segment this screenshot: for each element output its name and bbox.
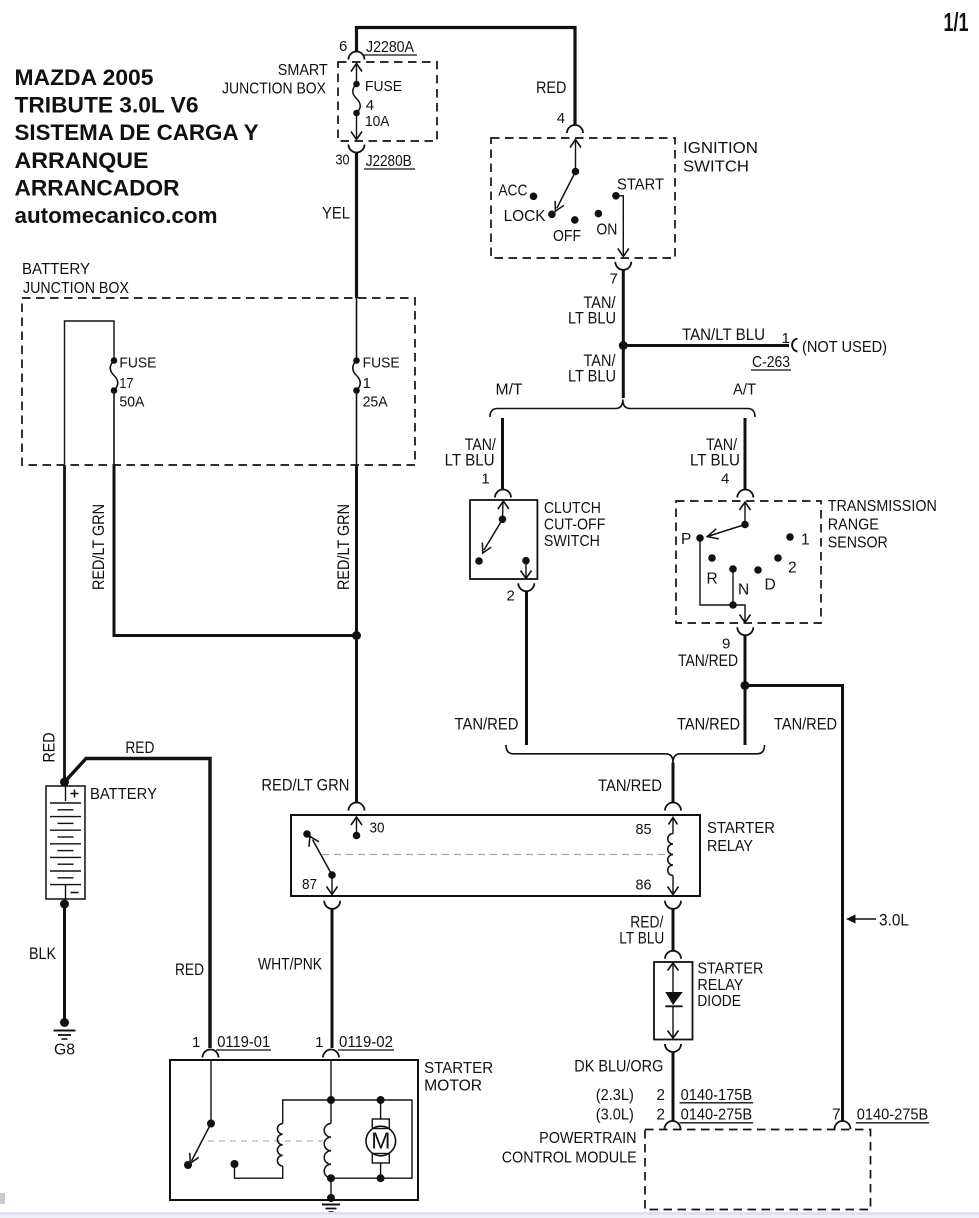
wire top horizontal RED feed [357, 28, 576, 126]
connector pin 4 ignition switch [557, 110, 583, 133]
merge brace [506, 745, 765, 763]
svg-text:BATTERY: BATTERY [90, 786, 157, 803]
label SMART JUNCTION BOX [222, 62, 328, 98]
svg-text:DK BLU/ORG: DK BLU/ORG [574, 1057, 663, 1076]
svg-text:J2280A: J2280A [366, 39, 415, 56]
connector PCM pin 7 [835, 1121, 851, 1129]
wire pin 87 exit arrow [331, 875, 333, 895]
connector pin 1 clutch switch [481, 471, 511, 498]
svg-text:SWITCH: SWITCH [683, 159, 749, 176]
svg-text:CUT-OFF: CUT-OFF [544, 517, 606, 534]
svg-text:ARRANQUE: ARRANQUE [15, 148, 149, 173]
svg-text:7: 7 [610, 271, 618, 288]
contact R [708, 554, 716, 562]
battery junction box (dashed) [22, 298, 415, 465]
svg-text:30: 30 [336, 151, 350, 168]
svg-text:LT BLU: LT BLU [445, 451, 495, 470]
svg-text:RED: RED [40, 733, 59, 763]
svg-text:0119-01: 0119-01 [217, 1034, 270, 1051]
split brace M/T A/T [490, 400, 755, 418]
connector pin 30 J2280B [336, 145, 416, 171]
svg-text:DIODE: DIODE [697, 993, 741, 1010]
connector pin 87 exit [324, 901, 340, 909]
svg-text:YEL: YEL [322, 204, 350, 223]
bottom page strip [0, 1212, 979, 1215]
svg-text:RED: RED [175, 960, 204, 979]
svg-text:LT BLU: LT BLU [568, 309, 616, 328]
starter hold-in winding [324, 1060, 335, 1182]
label TRANSMISSION RANGE SENSOR [828, 498, 937, 551]
svg-text:17: 17 [119, 375, 133, 392]
svg-text:TAN/RED: TAN/RED [774, 714, 837, 733]
label IGNITION SWITCH [683, 140, 758, 176]
starter relay box [291, 815, 700, 896]
wire BLK battery to ground [63, 904, 66, 1020]
svg-text:TRIBUTE 3.0L V6: TRIBUTE 3.0L V6 [15, 93, 199, 118]
contact pin2 [522, 557, 530, 565]
svg-text:RED: RED [125, 738, 154, 757]
wire pin4 entry arrow [740, 502, 751, 510]
svg-text:1/1: 1/1 [944, 7, 969, 37]
svg-text:M/T: M/T [496, 382, 524, 399]
svg-text:JUNCTION BOX: JUNCTION BOX [222, 81, 327, 98]
svg-text:SENSOR: SENSOR [828, 534, 888, 551]
svg-text:FUSE: FUSE [119, 355, 156, 372]
wire TAN/RED brace to relay [672, 763, 675, 803]
label BATTERY JUNCTION BOX [22, 261, 130, 297]
wire A/T branch down [744, 418, 747, 490]
svg-text:TRANSMISSION: TRANSMISSION [828, 498, 937, 515]
svg-text:TAN/RED: TAN/RED [455, 714, 519, 733]
svg-text:50A: 50A [119, 394, 144, 411]
wire TAN/LT BLU ignition to junction [622, 269, 625, 345]
svg-text:0140-175B: 0140-175B [681, 1087, 753, 1104]
sensor wiper arrow to P [709, 525, 745, 537]
connector PCM pin 2 [665, 1121, 681, 1129]
node clutch pivot [499, 516, 507, 524]
ground G8 [54, 1018, 76, 1059]
starter motor ground [322, 1178, 340, 1212]
svg-text:0140-275B: 0140-275B [681, 1107, 753, 1124]
svg-text:ACC: ACC [498, 182, 527, 199]
svg-text:TAN/RED: TAN/RED [677, 714, 740, 733]
clutch wiper arrow [484, 519, 503, 550]
svg-text:86: 86 [636, 877, 652, 894]
contact 2 [774, 554, 782, 562]
svg-text:25A: 25A [363, 394, 388, 411]
svg-text:BLK: BLK [29, 944, 57, 963]
wire pin2 exit arrow [525, 561, 527, 579]
svg-text:STARTER: STARTER [707, 820, 775, 837]
wire branch to C-263 [623, 344, 789, 347]
svg-text:MAZDA 2005: MAZDA 2005 [15, 65, 154, 90]
svg-text:G8: G8 [54, 1042, 75, 1059]
wire below fuse 1 [356, 391, 358, 466]
wire branch right to PCM pin 7 [745, 686, 843, 1122]
svg-text:STARTER: STARTER [424, 1060, 493, 1077]
node wiper pivot [572, 168, 580, 176]
arrow down out of SJB [351, 113, 362, 140]
svg-text:RED/LT GRN: RED/LT GRN [334, 504, 353, 590]
svg-text:4: 4 [557, 110, 565, 127]
connector pin 1 0119-02 [315, 1034, 394, 1057]
svg-text:SWITCH: SWITCH [544, 533, 600, 550]
label STARTER RELAY DIODE [697, 961, 763, 1010]
svg-text:2: 2 [788, 560, 797, 577]
wire below fuse 17 [113, 391, 115, 466]
svg-text:2: 2 [656, 1107, 665, 1124]
svg-text:P: P [681, 531, 691, 548]
connector pin 9 range sensor [722, 627, 753, 652]
svg-text:85: 85 [636, 821, 652, 838]
wire RED battery to starter motor [65, 759, 211, 1049]
connector pin 86 exit [665, 901, 681, 909]
clutch cut-off switch box [470, 500, 537, 579]
svg-text:RELAY: RELAY [707, 838, 753, 855]
fuse F4 10A [353, 78, 402, 130]
svg-text:SISTEMA DE CARGA Y: SISTEMA DE CARGA Y [15, 120, 259, 145]
svg-text:RELAY: RELAY [697, 977, 743, 994]
svg-text:1: 1 [481, 471, 489, 488]
labels TAN/RED row [677, 714, 837, 733]
contact P [696, 534, 704, 542]
svg-text:2: 2 [507, 587, 515, 604]
relay internal dashed line [322, 854, 666, 856]
wire battery positive feed [63, 465, 66, 782]
node TAN/RED junction [741, 681, 750, 690]
wire DK BLU/ORG diode to PCM [672, 1052, 675, 1122]
smart junction box (dashed) [338, 62, 437, 141]
wire RED/LT GRN from fuse 17 joining fuse 1 output [114, 465, 357, 636]
svg-text:3.0L: 3.0L [879, 911, 909, 930]
connector pin 2 clutch switch [507, 583, 535, 604]
wire WHT/PNK relay to starter motor [331, 908, 334, 1048]
wire into BJB right branch [356, 298, 358, 361]
contact OFF [571, 216, 579, 224]
svg-text:SMART: SMART [278, 62, 328, 79]
svg-text:STARTER: STARTER [697, 961, 763, 978]
connector labels 0140-175B / 0140-275B [596, 1087, 929, 1124]
transmission range sensor box (dashed) [676, 501, 821, 623]
connector pin 85 starter relay [665, 803, 681, 811]
wire YEL SJB to BJB [355, 152, 358, 298]
svg-text:WHT/PNK: WHT/PNK [258, 955, 323, 974]
node battery negative [60, 900, 69, 909]
contact ON [595, 210, 603, 218]
node TAN/LT BLU junction [619, 341, 628, 350]
powertrain control module box (dashed) [645, 1130, 871, 1210]
relay coil 85-86 [636, 818, 679, 895]
connector diode bottom [665, 1044, 681, 1052]
svg-text:6: 6 [339, 38, 347, 55]
svg-text:C-263: C-263 [752, 354, 790, 371]
svg-text:BATTERY: BATTERY [22, 261, 90, 278]
connector pin 4 range sensor [721, 471, 753, 498]
svg-text:OFF: OFF [553, 228, 581, 245]
svg-text:CONTROL MODULE: CONTROL MODULE [502, 1149, 637, 1166]
starter motor internal dashed line [208, 1140, 323, 1142]
starter motor M [366, 1096, 396, 1182]
svg-text:30: 30 [370, 819, 385, 836]
diode D1 internals [665, 963, 682, 1038]
wire RED/LT BLU relay to diode [672, 908, 675, 951]
svg-text:FUSE: FUSE [363, 355, 400, 372]
wire M/T branch down [501, 418, 504, 490]
contact open [475, 557, 483, 565]
svg-text:FUSE: FUSE [365, 78, 402, 95]
node P/N junction [729, 601, 737, 609]
starter motor contact and pull-in winding [231, 1100, 413, 1178]
svg-text:RED/LT GRN: RED/LT GRN [89, 504, 108, 590]
left edge smudge [0, 1193, 5, 1204]
svg-text:N: N [738, 582, 749, 599]
svg-text:J2280B: J2280B [366, 153, 412, 170]
svg-text:0140-275B: 0140-275B [857, 1107, 929, 1124]
node sensor pivot [741, 521, 749, 529]
wire P/N common to pin 9 [700, 538, 745, 623]
ignition switch internals [498, 140, 664, 257]
svg-text:LT BLU: LT BLU [568, 367, 616, 386]
svg-text:JUNCTION BOX: JUNCTION BOX [23, 280, 130, 297]
svg-text:87: 87 [302, 876, 317, 893]
svg-text:ON: ON [596, 222, 617, 239]
wire pin1 entry arrow [498, 501, 509, 509]
contact N [729, 565, 737, 573]
svg-text:A/T: A/T [733, 382, 756, 399]
svg-text:(NOT USED): (NOT USED) [802, 339, 887, 356]
label CLUTCH CUT-OFF SWITCH [544, 500, 606, 550]
svg-text:M: M [371, 1127, 390, 1153]
svg-text:RANGE: RANGE [828, 516, 879, 533]
svg-text:automecanico.com: automecanico.com [15, 203, 218, 228]
wire TAN/RED sensor to junction [744, 635, 747, 686]
svg-text:0119-02: 0119-02 [339, 1034, 393, 1051]
connector pin 30 starter relay [349, 803, 365, 811]
fuse F1 25A [353, 355, 400, 411]
svg-text:IGNITION: IGNITION [683, 140, 758, 157]
contact 87 [328, 871, 336, 879]
svg-text:1: 1 [782, 330, 790, 347]
svg-text:1: 1 [192, 1034, 200, 1051]
wire pin4 entry arrow [570, 140, 581, 148]
relay switch arm [313, 840, 333, 876]
svg-text:2: 2 [656, 1087, 665, 1104]
wire START output to pin 7 [616, 196, 623, 257]
range sensor internals [681, 502, 810, 623]
svg-text:POWERTRAIN: POWERTRAIN [539, 1130, 637, 1147]
starter motor box [170, 1060, 418, 1200]
wire inside BJB left branch [65, 321, 115, 465]
svg-text:TAN/RED: TAN/RED [598, 776, 662, 795]
relay pin 30 arrow and contact [351, 817, 385, 839]
svg-text:4: 4 [366, 97, 374, 114]
svg-text:(2.3L): (2.3L) [596, 1087, 634, 1104]
clutch switch internals [475, 501, 531, 579]
relay switch 87 [302, 830, 338, 894]
contact 1 [786, 533, 794, 541]
node battery positive [60, 778, 69, 787]
connector C-263 pin 1 (NOT USED) [751, 330, 887, 371]
svg-text:MOTOR: MOTOR [424, 1078, 482, 1095]
contact D [754, 566, 762, 574]
ignition switch box (dashed) [491, 138, 675, 258]
svg-text:4: 4 [721, 471, 729, 488]
fuse F17 50A [110, 355, 156, 411]
junction node fuse17/fuse1 [352, 631, 361, 640]
label 3.0L arrow on right wire [846, 911, 909, 930]
title block [15, 65, 259, 228]
svg-text:10A: 10A [365, 113, 390, 130]
contact LOCK [548, 211, 556, 219]
contact 30 side [303, 830, 311, 838]
svg-text:1: 1 [315, 1034, 323, 1051]
wire TAN/RED sensor junction to merge brace [744, 686, 747, 746]
svg-text:RED: RED [536, 78, 567, 97]
battery B1 [46, 786, 157, 899]
svg-text:1: 1 [801, 532, 810, 549]
svg-text:(3.0L): (3.0L) [596, 1107, 634, 1124]
svg-text:CLUTCH: CLUTCH [544, 500, 601, 517]
connector pin 1 0119-01 [192, 1034, 271, 1057]
contact START [612, 192, 620, 200]
svg-text:D: D [765, 577, 776, 594]
svg-text:TAN/RED: TAN/RED [678, 651, 738, 670]
svg-text:1: 1 [363, 375, 371, 392]
svg-text:LT BLU: LT BLU [690, 451, 740, 470]
wire RED/LT GRN fuse1 down to relay [355, 465, 358, 802]
ignition wiper arrow to LOCK [557, 172, 576, 209]
label STARTER RELAY [707, 820, 775, 855]
connector diode top [665, 951, 681, 959]
wire TAN/RED clutch to merge brace [525, 591, 528, 745]
svg-text:RED/LT GRN: RED/LT GRN [261, 776, 349, 795]
label POWERTRAIN CONTROL MODULE [502, 1130, 637, 1166]
starter solenoid switch [184, 1060, 215, 1169]
svg-text:LOCK: LOCK [504, 208, 547, 225]
svg-text:ARRANCADOR: ARRANCADOR [15, 175, 180, 200]
arrow up into SJB [351, 64, 362, 85]
svg-text:LT BLU: LT BLU [619, 928, 664, 947]
starter relay diode box [654, 962, 693, 1040]
connector pin 7 ignition switch [610, 262, 632, 288]
connector pin 6 J2280A [339, 38, 417, 60]
svg-text:R: R [707, 570, 718, 587]
label STARTER MOTOR [424, 1060, 493, 1095]
svg-text:TAN/LT BLU: TAN/LT BLU [682, 325, 765, 344]
wire TAN/LT BLU junction to split brace [622, 346, 625, 399]
svg-text:9: 9 [722, 635, 730, 652]
contact ACC [530, 193, 538, 201]
svg-text:START: START [617, 177, 664, 194]
